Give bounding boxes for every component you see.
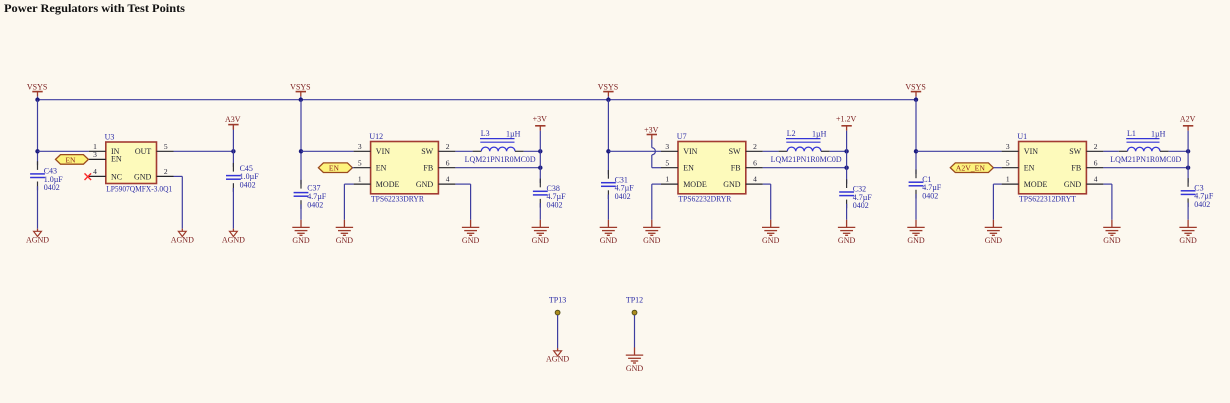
- svg-text:U3: U3: [105, 132, 115, 141]
- svg-text:3: 3: [1006, 142, 1010, 151]
- svg-text:EN: EN: [65, 155, 76, 164]
- svg-text:LP5907QMFX-3.0Q1: LP5907QMFX-3.0Q1: [106, 184, 172, 193]
- svg-text:GND: GND: [838, 236, 856, 245]
- svg-text:6: 6: [1094, 158, 1098, 167]
- svg-text:3: 3: [93, 150, 97, 159]
- svg-text:+1.2V: +1.2V: [836, 114, 857, 123]
- svg-text:U1: U1: [1017, 132, 1027, 141]
- svg-text:LQM21PN1R0MC0D: LQM21PN1R0MC0D: [1110, 155, 1181, 164]
- svg-text:FB: FB: [1071, 164, 1081, 173]
- svg-text:GND: GND: [626, 364, 644, 373]
- svg-text:0402: 0402: [307, 200, 323, 209]
- svg-text:5: 5: [164, 142, 168, 151]
- svg-text:0402: 0402: [922, 191, 938, 200]
- svg-text:FB: FB: [731, 164, 741, 173]
- svg-text:GND: GND: [532, 236, 550, 245]
- svg-text:1: 1: [665, 175, 669, 184]
- svg-text:GND: GND: [762, 236, 780, 245]
- svg-text:TPS622312DRYT: TPS622312DRYT: [1019, 195, 1076, 204]
- svg-text:EN: EN: [683, 164, 694, 173]
- svg-text:3: 3: [358, 142, 362, 151]
- svg-text:GND: GND: [723, 180, 741, 189]
- svg-text:VIN: VIN: [683, 147, 697, 156]
- svg-text:LQM21PN1R0MC0D: LQM21PN1R0MC0D: [465, 155, 536, 164]
- svg-text:U12: U12: [369, 132, 383, 141]
- svg-text:GND: GND: [1103, 236, 1121, 245]
- svg-text:3: 3: [665, 142, 669, 151]
- svg-text:VSYS: VSYS: [905, 83, 925, 92]
- svg-text:MODE: MODE: [1024, 180, 1048, 189]
- svg-text:OUT: OUT: [135, 147, 152, 156]
- svg-text:GND: GND: [416, 180, 434, 189]
- svg-text:VSYS: VSYS: [27, 83, 47, 92]
- svg-text:VIN: VIN: [1024, 147, 1038, 156]
- svg-text:0402: 0402: [1194, 200, 1210, 209]
- svg-text:TP13: TP13: [549, 295, 566, 304]
- svg-text:GND: GND: [462, 236, 480, 245]
- svg-text:GND: GND: [1064, 180, 1082, 189]
- svg-text:SW: SW: [421, 147, 433, 156]
- svg-text:VIN: VIN: [376, 147, 390, 156]
- svg-text:AGND: AGND: [546, 354, 569, 363]
- svg-text:TP12: TP12: [626, 295, 643, 304]
- svg-text:Power Regulators with Test Poi: Power Regulators with Test Points: [4, 1, 185, 15]
- svg-text:U7: U7: [677, 132, 687, 141]
- svg-text:VSYS: VSYS: [598, 83, 618, 92]
- svg-text:MODE: MODE: [683, 180, 707, 189]
- svg-text:L2: L2: [787, 129, 796, 138]
- svg-text:0402: 0402: [240, 181, 256, 190]
- svg-text:EN: EN: [376, 164, 387, 173]
- svg-text:GND: GND: [134, 172, 152, 181]
- svg-text:4: 4: [1094, 175, 1098, 184]
- svg-text:A3V: A3V: [225, 115, 241, 124]
- svg-text:5: 5: [1006, 158, 1010, 167]
- svg-text:SW: SW: [729, 147, 741, 156]
- svg-text:6: 6: [446, 158, 450, 167]
- svg-text:EN: EN: [111, 155, 122, 164]
- svg-text:FB: FB: [423, 164, 433, 173]
- svg-text:2: 2: [446, 142, 450, 151]
- svg-text:5: 5: [665, 158, 669, 167]
- svg-text:6: 6: [753, 158, 757, 167]
- svg-text:TPS62233DRYR: TPS62233DRYR: [371, 195, 425, 204]
- svg-text:NC: NC: [111, 172, 122, 181]
- svg-text:L1: L1: [1127, 129, 1136, 138]
- svg-text:2: 2: [753, 142, 757, 151]
- svg-text:0402: 0402: [44, 183, 60, 192]
- svg-text:2: 2: [164, 167, 168, 176]
- svg-text:0402: 0402: [853, 201, 869, 210]
- svg-text:5: 5: [358, 158, 362, 167]
- svg-text:A2V_EN: A2V_EN: [956, 164, 986, 173]
- svg-text:+3V: +3V: [533, 114, 548, 123]
- svg-text:VSYS: VSYS: [290, 83, 310, 92]
- svg-text:2: 2: [1094, 142, 1098, 151]
- svg-text:EN: EN: [1024, 164, 1035, 173]
- svg-text:4: 4: [446, 175, 450, 184]
- svg-text:GND: GND: [292, 236, 310, 245]
- svg-text:MODE: MODE: [376, 180, 400, 189]
- svg-text:GND: GND: [336, 236, 354, 245]
- svg-text:SW: SW: [1069, 147, 1081, 156]
- svg-text:L3: L3: [481, 129, 490, 138]
- svg-text:LQM21PN1R0MC0D: LQM21PN1R0MC0D: [771, 155, 842, 164]
- svg-text:1: 1: [1006, 175, 1010, 184]
- svg-text:A2V: A2V: [1180, 114, 1196, 123]
- svg-text:4: 4: [753, 175, 757, 184]
- svg-text:GND: GND: [600, 236, 618, 245]
- svg-text:TPS62232DRYR: TPS62232DRYR: [678, 195, 732, 204]
- svg-text:AGND: AGND: [26, 236, 49, 245]
- svg-text:0402: 0402: [547, 201, 563, 210]
- svg-text:GND: GND: [907, 236, 925, 245]
- svg-text:1µH: 1µH: [1151, 129, 1166, 138]
- svg-text:EN: EN: [329, 164, 340, 173]
- svg-text:4: 4: [93, 167, 97, 176]
- svg-text:1µH: 1µH: [812, 129, 827, 138]
- svg-text:1µH: 1µH: [506, 129, 521, 138]
- svg-text:AGND: AGND: [222, 236, 245, 245]
- svg-text:1: 1: [358, 175, 362, 184]
- svg-text:GND: GND: [643, 236, 661, 245]
- svg-text:+3V: +3V: [644, 125, 659, 134]
- svg-text:GND: GND: [985, 236, 1003, 245]
- svg-text:AGND: AGND: [171, 236, 194, 245]
- svg-text:GND: GND: [1179, 236, 1197, 245]
- svg-text:0402: 0402: [615, 192, 631, 201]
